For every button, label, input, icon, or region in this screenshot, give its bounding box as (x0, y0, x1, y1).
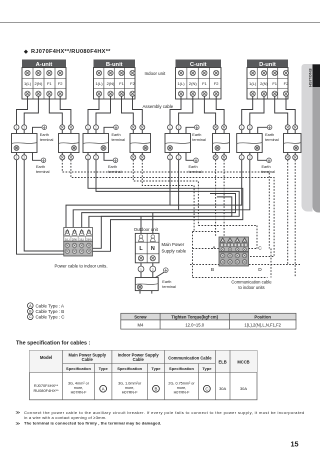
A communication cable connector box (59, 134, 80, 153)
screw torque table (121, 313, 296, 329)
svg-text:3G, 1.0mm²or: 3G, 1.0mm²or (118, 381, 142, 385)
svg-text:B: B (154, 386, 157, 391)
svg-text:Earth: Earth (162, 280, 171, 284)
D-unit screw terminal top F2 (283, 70, 288, 75)
wire C 1(L) to power connector (170, 96, 181, 125)
svg-text:2(N): 2(N) (86, 237, 91, 241)
B communication wire terminals upper (131, 125, 136, 130)
B-unit screw terminal top 1(L) (96, 70, 101, 75)
wire A 1(L) to power connector (17, 96, 28, 125)
outdoor communication terminal strip B/D (bottom) (219, 252, 249, 266)
B-unit screw terminal bottom F2 (130, 91, 135, 96)
D power connector earth screw (255, 146, 260, 151)
main power feed runs (82, 194, 236, 229)
D communication cable connector box (284, 134, 302, 153)
outdoor earth terminal (156, 268, 176, 289)
svg-text:Indoor unit: Indoor unit (145, 71, 167, 76)
wire A power 1(L) run to indoor-power terminal strip (17, 160, 65, 254)
A-unit screw terminal top 2(N) (36, 70, 41, 75)
wire C communication F1 (dashed) (215, 160, 217, 237)
svg-text:Communication Cable: Communication Cable (168, 356, 212, 361)
svg-text:terminal: terminal (265, 138, 279, 142)
D communication wire terminals upper (285, 125, 290, 130)
svg-text:Connect the power cable to the: Connect the power cable to the auxiliary… (24, 410, 305, 415)
wire A communication F1 (dashed) (62, 160, 269, 249)
svg-text:1(L): 1(L) (249, 81, 257, 86)
svg-text:A: A (29, 304, 32, 308)
indoor-power terminal strip (1(L) 2(N) 1(L) 2(N)) (64, 228, 93, 257)
wire C F2 to communication connector (216, 96, 224, 125)
A-unit screw terminal top F2 (58, 70, 63, 75)
svg-text:A: A (212, 245, 216, 251)
A-unit screw terminal bottom F1 (47, 91, 52, 96)
svg-text:≫: ≫ (16, 410, 21, 415)
wire C 2(N) to power connector (179, 96, 193, 125)
A-unit screw terminal bottom F2 (58, 91, 63, 96)
wire B power 2(N) run (93, 160, 240, 249)
C-unit screw terminal bottom F1 (202, 91, 207, 96)
svg-text:Tighten Torque(kgf·cm): Tighten Torque(kgf·cm) (171, 314, 218, 319)
wire D F1 to communication connector (275, 96, 288, 125)
A-unit screw terminal bottom 2(N) (36, 91, 41, 96)
svg-text:2(N): 2(N) (189, 81, 197, 86)
svg-text:1(L): 1(L) (177, 81, 185, 86)
legend cable type A (28, 303, 65, 309)
wire B power 1(L) run (88, 160, 243, 252)
svg-text:F2: F2 (214, 81, 219, 86)
svg-text:terminal: terminal (36, 170, 50, 174)
svg-text:30A: 30A (219, 386, 226, 391)
svg-text:H07RN-F: H07RN-F (174, 390, 191, 394)
C-unit screw terminal top 1(L) (178, 70, 183, 75)
C communication connector earth screw (215, 146, 220, 151)
B communication connector earth screw (143, 146, 148, 151)
C-unit screw terminal bottom F2 (214, 91, 219, 96)
svg-text:more,: more, (125, 386, 135, 390)
wire D power 2(N) run (179, 160, 250, 210)
B power cable connector box (83, 134, 109, 153)
svg-text:2(N): 2(N) (72, 237, 77, 241)
D earth terminal lower (258, 153, 275, 175)
svg-text:12.0~15.0: 12.0~15.0 (185, 323, 204, 328)
B communication wire terminals lower (132, 153, 134, 155)
svg-text:Cable Type : B: Cable Type : B (36, 309, 65, 314)
svg-text:The specification for cables :: The specification for cables : (16, 341, 90, 347)
svg-text:Earth: Earth (36, 165, 45, 169)
A-unit screw terminal top 1(L) (25, 70, 30, 75)
C power wire terminals lower (169, 153, 171, 155)
svg-text:F2: F2 (284, 81, 289, 86)
svg-text:H07RN-F: H07RN-F (71, 390, 88, 394)
main power wire terminal 2 (150, 266, 156, 272)
wire D communication F1 (dashed) (287, 160, 289, 265)
A power wire terminals lower (16, 153, 18, 155)
svg-text:Type: Type (151, 366, 161, 371)
outdoor unit main terminal block L N (135, 233, 159, 262)
svg-text:terminal: terminal (192, 138, 206, 142)
svg-text:Outdoor unit: Outdoor unit (134, 227, 159, 232)
svg-text:Supply cable: Supply cable (162, 249, 187, 254)
svg-text:B: B (211, 267, 214, 273)
svg-text:Earth: Earth (265, 133, 274, 137)
svg-text:more,: more, (74, 386, 84, 390)
svg-text:Screw: Screw (134, 314, 147, 319)
svg-text:terminal: terminal (40, 138, 54, 142)
C-unit screw terminal top F1 (202, 70, 207, 75)
svg-text:F1: F1 (272, 81, 277, 86)
legend cable type C (28, 314, 65, 320)
svg-text:1(L): 1(L) (95, 81, 103, 86)
wire D communication F2 (dashed) (294, 160, 296, 277)
svg-text:F1: F1 (119, 81, 124, 86)
A power cable connector box (12, 134, 38, 153)
svg-text:Earth: Earth (108, 165, 117, 169)
D-unit screw terminal top F1 (272, 70, 277, 75)
D-unit screw terminal top 1(L) (250, 70, 255, 75)
svg-text:B: B (29, 310, 32, 314)
svg-text:Specification: Specification (117, 366, 142, 371)
A earth terminal lower (33, 153, 50, 175)
svg-text:Earth: Earth (192, 133, 201, 137)
C power cable connector box (165, 134, 191, 153)
svg-text:1(L): 1(L) (65, 237, 70, 241)
svg-text:ELB: ELB (219, 360, 227, 365)
svg-text:F1: F1 (47, 81, 52, 86)
wire B communication F2 (dashed) (142, 160, 194, 232)
svg-text:M4: M4 (137, 323, 143, 328)
B-unit screw terminal top F2 (130, 70, 135, 75)
svg-text:Earth: Earth (112, 133, 121, 137)
C power wire terminals upper (168, 125, 173, 130)
legend cable type B (28, 308, 65, 314)
svg-text:MCCB: MCCB (237, 360, 249, 365)
svg-text:C: C (258, 246, 262, 252)
svg-text:terminal: terminal (162, 285, 176, 289)
A power wire terminals upper (14, 125, 19, 130)
C earth terminal upper (186, 125, 206, 142)
C-unit screw terminal bottom 2(N) (190, 91, 195, 96)
C communication cable connector box (213, 134, 230, 153)
C communication wire terminals lower (215, 153, 217, 155)
svg-text:F1: F1 (202, 81, 207, 86)
C power connector earth screw (168, 146, 173, 151)
A earth terminal upper (33, 125, 54, 142)
svg-text:2(N): 2(N) (35, 81, 43, 86)
svg-text:Specification: Specification (66, 366, 91, 371)
B power connector earth screw (101, 146, 106, 151)
B power wire terminals upper (86, 125, 91, 130)
svg-text:1(L): 1(L) (79, 237, 84, 241)
svg-text:Communication cable: Communication cable (231, 280, 272, 285)
B power wire terminals lower (87, 153, 89, 155)
A communication wire terminals lower (61, 153, 63, 155)
D power wire terminals upper (239, 125, 244, 130)
B earth terminal upper (104, 125, 125, 142)
D power cable connector box (237, 134, 263, 153)
svg-text:Earth: Earth (262, 165, 271, 169)
svg-text:C: C (205, 386, 208, 391)
wire C F1 to communication connector (204, 96, 215, 125)
cable specification table (30, 351, 258, 400)
wires L N to main power connector (140, 263, 142, 266)
svg-text:Position: Position (254, 314, 271, 319)
B-unit screw terminal bottom 2(N) (108, 91, 113, 96)
D communication wire terminals lower (287, 153, 289, 155)
svg-text:C: C (29, 315, 32, 319)
wire C communication F2 (dashed) (223, 160, 225, 237)
svg-text:D: D (258, 267, 262, 273)
svg-text:F2: F2 (58, 81, 63, 86)
svg-text:2(N): 2(N) (260, 81, 268, 86)
svg-text:Assembly cable: Assembly cable (143, 104, 174, 109)
indoor unit B terminal block (94, 60, 136, 100)
B-unit screw terminal top 2(N) (108, 70, 113, 75)
svg-text:Cable Type : A: Cable Type : A (36, 303, 65, 308)
D-unit screw terminal bottom 1(L) (250, 91, 255, 96)
outdoor communication terminal strip A/C (top) (219, 237, 249, 252)
wire B F2 to communication connector (133, 96, 143, 125)
top rule (0, 22, 320, 24)
C-unit screw terminal top F2 (214, 70, 219, 75)
wire B 2(N) to power connector (96, 96, 111, 125)
wire D 1(L) to power connector (242, 96, 253, 125)
svg-text:Cable: Cable (133, 357, 145, 362)
svg-text:◆: ◆ (23, 49, 28, 55)
svg-text:Specification: Specification (169, 366, 194, 371)
D-unit screw terminal bottom F1 (272, 91, 277, 96)
page side tab ENGLISH (302, 64, 320, 213)
A communication wire terminals upper (60, 125, 65, 130)
svg-text:30A: 30A (240, 386, 247, 391)
svg-text:The terminal is connected too: The terminal is connected too firmly , t… (24, 421, 161, 426)
svg-text:Type: Type (202, 366, 212, 371)
svg-text:RJ070F4HX**/RU080F4HX**: RJ070F4HX**/RU080F4HX** (31, 49, 111, 55)
indoor unit D terminal block (247, 60, 289, 100)
indoor unit C terminal block (176, 60, 222, 100)
wire A F2 to communication connector (60, 96, 71, 125)
svg-text:1(L),2(N),L,N,F1,F2: 1(L),2(N),L,N,F1,F2 (244, 323, 281, 328)
D earth terminal upper (258, 125, 279, 142)
wire A F1 to communication connector (49, 96, 62, 125)
wire C power 2(N) run (73, 160, 178, 229)
B-unit screw terminal top F1 (119, 70, 124, 75)
svg-text:2G, 0.75mm² or: 2G, 0.75mm² or (168, 381, 195, 385)
C-unit screw terminal bottom 1(L) (178, 91, 183, 96)
C earth terminal lower (186, 153, 202, 175)
A power connector earth screw (14, 146, 19, 151)
wire A 2(N) to power connector (24, 96, 38, 125)
wire D 2(N) to power connector (250, 96, 264, 125)
svg-text:H07RN-F: H07RN-F (122, 390, 139, 394)
svg-text:terminal: terminal (112, 138, 126, 142)
svg-text:more,: more, (177, 386, 187, 390)
outdoor communication dashed frame (190, 226, 300, 278)
svg-text:2(N): 2(N) (107, 81, 115, 86)
svg-text:≫: ≫ (16, 421, 21, 426)
wire A power 2(N) run to indoor-power terminal strip (24, 160, 64, 251)
D-unit screw terminal bottom F2 (283, 91, 288, 96)
svg-text:3G, 4mm² or: 3G, 4mm² or (68, 381, 90, 385)
svg-text:Model: Model (40, 355, 52, 360)
D-unit screw terminal bottom 2(N) (261, 91, 266, 96)
wire B communication F1 (dashed) (133, 160, 198, 226)
wire D F2 to communication connector (286, 96, 295, 125)
svg-text:F2: F2 (130, 81, 135, 86)
svg-text:1(L): 1(L) (24, 81, 32, 86)
wire A communication F2 (dashed) (71, 160, 274, 257)
svg-text:Earth: Earth (40, 133, 49, 137)
svg-text:Type: Type (99, 366, 109, 371)
svg-text:N: N (151, 246, 155, 252)
A-unit screw terminal top F1 (47, 70, 52, 75)
wire B 1(L) to power connector (88, 96, 99, 125)
main power wire terminal 1 (138, 266, 144, 272)
svg-text:Main Power: Main Power (162, 242, 185, 247)
svg-text:Cable: Cable (82, 357, 94, 362)
svg-text:Cable Type : C: Cable Type : C (36, 315, 65, 320)
wire C power 1(L) run (66, 160, 170, 229)
svg-text:RU080F4HX**: RU080F4HX** (34, 388, 60, 393)
svg-text:Earth: Earth (189, 165, 198, 169)
indoor unit A terminal block (22, 60, 66, 100)
svg-text:15: 15 (291, 440, 299, 449)
svg-text:to indoor units: to indoor units (238, 285, 264, 290)
B-unit screw terminal bottom 1(L) (96, 91, 101, 96)
B earth terminal lower (104, 153, 122, 175)
C-unit screw terminal top 2(N) (190, 70, 195, 75)
D-unit screw terminal top 2(N) (261, 70, 266, 75)
B communication cable connector box (130, 134, 151, 153)
svg-text:A: A (102, 386, 105, 391)
main power cable connector box (135, 278, 158, 291)
wire D power 1(L) run (170, 160, 242, 205)
svg-text:Power cable to indoor units.: Power cable to indoor units. (55, 264, 108, 269)
A-unit screw terminal bottom 1(L) (25, 91, 30, 96)
A communication connector earth screw (72, 146, 77, 151)
svg-text:ENGLISH: ENGLISH (308, 69, 313, 87)
B-unit screw terminal bottom F1 (119, 91, 124, 96)
D power wire terminals lower (241, 153, 243, 155)
C communication wire terminals upper (213, 125, 218, 130)
wire B F1 to communication connector (122, 96, 134, 125)
svg-text:in a wire with a contact openi: in a wire with a contact opening of ≥3mm… (24, 415, 107, 420)
D communication connector earth screw (294, 146, 299, 151)
